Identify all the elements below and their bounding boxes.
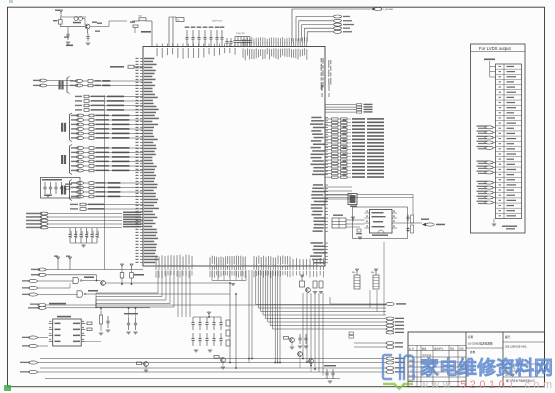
resistor row R102 with net label bbox=[75, 84, 82, 87]
capacitor C65 bbox=[128, 318, 130, 323]
net label to speaker bbox=[426, 223, 434, 226]
LVDS net label y187.6 bbox=[485, 186, 493, 189]
wire U1 bottom pin drop 1 bbox=[255, 270, 257, 305]
resistor array RA1 bbox=[354, 275, 360, 289]
net label bus 1 bbox=[386, 317, 394, 320]
ground LVDS bbox=[492, 223, 496, 225]
ground bbox=[81, 244, 85, 246]
wire IR net bbox=[47, 304, 386, 306]
wires U1 drops to caps grid bbox=[177, 270, 179, 317]
ground bbox=[66, 41, 70, 43]
capacitor C512 bbox=[192, 30, 194, 37]
ground bbox=[133, 331, 137, 333]
net label 5V bbox=[38, 268, 46, 271]
net label and wire TP/MTV 2 bbox=[298, 21, 300, 42]
crystal X2 with wires to U1 bbox=[110, 66, 124, 68]
connector CN7 pin table bbox=[332, 218, 346, 228]
wire U1 bottom-left drop 2 bbox=[161, 270, 163, 297]
LVDS series resistor pair row 7 bbox=[325, 139, 332, 141]
LVDS series resistor pair row 5 bbox=[325, 132, 332, 134]
main SoC IC U1 body bbox=[143, 47, 325, 267]
LVDS net label y127.3 bbox=[485, 126, 493, 129]
resistor R202 with wire bbox=[325, 106, 357, 108]
net label bottom-left y362.5 bbox=[29, 361, 38, 364]
LVDS series resistor pair row 13 bbox=[325, 159, 332, 161]
wire U1 bottom pin drop 7 bbox=[269, 270, 271, 326]
crystal X1 bbox=[176, 18, 184, 22]
input row with net label y152.5 bbox=[76, 151, 83, 154]
ground bbox=[194, 349, 198, 351]
resistor row R101 with net label bbox=[75, 80, 82, 83]
wires to gates bbox=[38, 280, 74, 282]
ground bbox=[313, 291, 317, 293]
wires drops to bottom bus bbox=[302, 293, 304, 359]
resistor R31 bbox=[357, 229, 361, 232]
wire U1 bottom-left drop 3 bbox=[165, 270, 167, 300]
svg-text:L_KEYPAD: L_KEYPAD bbox=[383, 8, 394, 11]
LVDS series resistor pair row 16 bbox=[325, 169, 332, 171]
diode D501 pair bbox=[74, 17, 78, 21]
ground bbox=[144, 369, 148, 371]
LVDS net label y182.6 bbox=[485, 181, 493, 184]
svg-text:L502: L502 bbox=[138, 16, 142, 18]
net label bus right y368 bbox=[386, 367, 394, 370]
power flags for resistor arrays bbox=[356, 271, 358, 273]
LVDS series resistor pair row 6 bbox=[325, 135, 332, 137]
wire U1 bottom pin drop 4 bbox=[262, 270, 264, 315]
transistor Q12 bbox=[309, 359, 314, 364]
input row with net label y133.5 bbox=[76, 132, 83, 135]
net label power control 1 bbox=[29, 279, 38, 282]
ground bbox=[304, 345, 308, 347]
net label and wire TP/MTV 3 bbox=[301, 25, 303, 42]
wire U1 bottom-left drop 5 bbox=[173, 270, 175, 307]
input row with net label y115.5 bbox=[76, 114, 83, 117]
wire 5V rail top-left bbox=[61, 16, 86, 18]
resistor R32 pair bbox=[411, 215, 414, 223]
transistor Q11 bbox=[298, 352, 303, 357]
ground bbox=[106, 329, 110, 331]
ground bus under U1 bbox=[212, 280, 246, 282]
LVDS net label y202.5 bbox=[485, 201, 493, 204]
wire and net label CON5VA bbox=[330, 303, 386, 305]
wires long drops from U1 bbox=[274, 270, 276, 363]
LVDS net label y132.3 bbox=[485, 131, 493, 134]
ground bbox=[208, 349, 212, 351]
power flags with pull-up resistors bbox=[121, 266, 123, 268]
LVDS net label y167.4 bbox=[485, 166, 493, 169]
wire crystal pins bbox=[168, 17, 170, 47]
resistor stack R81-R83 bbox=[226, 320, 230, 326]
capacitor C61 bbox=[107, 316, 109, 321]
transistor Q9 with base resistor bbox=[214, 356, 219, 359]
filter row y209 bbox=[80, 208, 86, 211]
group bracket video inputs bbox=[69, 115, 71, 141]
capacitor C32 bbox=[407, 227, 409, 229]
net VCC_LVDS bbox=[484, 59, 495, 61]
capacitor pair C91 C92 bbox=[299, 334, 301, 338]
resistor R501 bbox=[59, 20, 63, 25]
wire to keypad net bbox=[292, 8, 371, 10]
net label bus 5 bbox=[386, 331, 394, 334]
wire Q501 output to L502 bbox=[90, 26, 109, 28]
group bracket tuner bbox=[66, 78, 68, 92]
svg-text:编号: 编号 bbox=[505, 335, 511, 339]
input row with net label y120 bbox=[76, 119, 83, 122]
net label far-left B bbox=[39, 84, 46, 87]
wire vertical bus x230 bbox=[229, 283, 231, 363]
op-amp U30 audio amplifier bbox=[370, 210, 393, 234]
title block table bbox=[408, 332, 545, 387]
decoupling capacitors C520-C525 bbox=[235, 36, 250, 38]
gate U5B bbox=[77, 291, 83, 297]
net label bus 2 bbox=[386, 321, 394, 324]
net label bus right y358.5 bbox=[386, 357, 394, 360]
LVDS series resistor pair row 12 bbox=[325, 156, 332, 158]
transistor Q8 with base resistor bbox=[144, 362, 149, 367]
LVDS series resistor pair row 14 bbox=[325, 162, 332, 164]
capacitor AV filter x97 bbox=[96, 228, 98, 235]
inductor L502 bbox=[139, 18, 146, 21]
net label and wire TP/MTV 5 bbox=[306, 32, 308, 42]
wire 5V rail bbox=[46, 269, 143, 271]
capacitor C66 bbox=[135, 318, 137, 323]
wire bottom bus 1 bbox=[38, 362, 387, 364]
transistor Q501 bbox=[85, 24, 90, 29]
LVDS series resistor pair row 4 bbox=[325, 128, 332, 130]
power flag with resistor and transistor Q7 bbox=[301, 277, 303, 279]
svg-text:LE-32S62电源电路图: LE-32S62电源电路图 bbox=[468, 342, 493, 346]
net labels IR and KEY bbox=[38, 304, 46, 307]
U1 left edge pins and pin-name labels bbox=[140, 58, 143, 60]
svg-text:家电维修资料网: 家电维修资料网 bbox=[420, 357, 553, 379]
net label L_KEYPAD bbox=[374, 8, 382, 11]
net label and wire TP/MTV 1 bbox=[295, 17, 297, 42]
LVDS net label y137.6 bbox=[485, 136, 493, 139]
ground bbox=[231, 283, 235, 285]
capacitor C515 bbox=[210, 30, 212, 37]
wire junction dots bbox=[229, 282, 231, 284]
resistor R203 with wire bbox=[325, 109, 357, 111]
group bracket audio inputs bbox=[69, 146, 71, 173]
green corner mark bottom-left bbox=[4, 385, 11, 391]
LVDS net label y142.5 bbox=[485, 141, 493, 144]
EEPROM U6 bbox=[53, 319, 81, 346]
watermark site logo icon bbox=[383, 355, 414, 379]
speaker connector CN8 bbox=[348, 194, 357, 205]
power flag 5V pair bbox=[57, 259, 59, 261]
net label bus 3 bbox=[386, 324, 394, 327]
power flag 5V bbox=[60, 12, 62, 14]
capacitor C501 bbox=[67, 30, 69, 34]
capacitor C31 bbox=[407, 215, 409, 218]
LVDS net label y162.4 bbox=[485, 161, 493, 164]
input row with net label y192 bbox=[76, 191, 83, 194]
net label bottom-left y372 bbox=[29, 370, 38, 373]
LVDS series resistor pair row 3 bbox=[325, 125, 332, 127]
resistor pair R61 R62 bbox=[87, 322, 92, 325]
ground bus AV filter bbox=[70, 242, 97, 244]
power flag caps grid bbox=[208, 314, 210, 316]
input row with net label y187.5 bbox=[76, 186, 83, 189]
input row with net label y148 bbox=[76, 147, 83, 150]
U1 top edge pins and pin numbers bbox=[156, 44, 158, 47]
U1 right edge top pin labels (rotated text) bbox=[321, 58, 322, 62]
capacitor C502 bbox=[87, 34, 89, 37]
resistor R63 bbox=[100, 308, 102, 315]
capacitor C514 bbox=[204, 30, 206, 37]
svg-text:更改单号: 更改单号 bbox=[434, 347, 444, 351]
net label and wire TP/MTV 4 bbox=[303, 28, 305, 41]
resistor row to U1 pin y96.5 bbox=[84, 95, 89, 98]
svg-text:www.520101.com: www.520101.com bbox=[419, 379, 555, 391]
input row with net label y157 bbox=[76, 156, 83, 159]
transistor Q5 bbox=[101, 281, 106, 286]
AV input net label and wire y224 bbox=[40, 223, 48, 226]
LVDS series resistor pair row 17 bbox=[325, 173, 332, 175]
ground bbox=[298, 345, 302, 347]
U1 right edge pins and pin-name labels bbox=[325, 117, 328, 119]
wire U1 bottom-left drop 4 bbox=[169, 270, 171, 304]
capacitor AV filter x92 bbox=[91, 228, 93, 235]
wire U1 bottom pin drop 5 bbox=[264, 270, 266, 319]
ground bbox=[46, 194, 50, 196]
input row with net label y129 bbox=[76, 128, 83, 131]
svg-text:C520-C525: C520-C525 bbox=[236, 33, 245, 35]
ground bbox=[290, 346, 294, 348]
audio amp sub-circuit boundary bbox=[353, 207, 408, 239]
wire bottom bus 4 bbox=[40, 367, 386, 369]
power flag amp bbox=[352, 219, 354, 221]
AV input net label and wire y227.5 bbox=[40, 226, 48, 229]
capacitor AV filter x81 bbox=[80, 228, 82, 235]
svg-text:For LVDS output: For LVDS output bbox=[479, 46, 511, 51]
LVDS net label y172.4 bbox=[485, 171, 493, 174]
group bracket sync signals bbox=[69, 181, 71, 199]
ferrite bead FB1 bbox=[133, 25, 138, 27]
net label I2C y337.5 bbox=[29, 336, 38, 339]
AV input net label and wire y217 bbox=[40, 216, 48, 219]
LVDS series resistor pair row 11 bbox=[325, 152, 332, 154]
wire bottom bus 5 bbox=[45, 378, 340, 380]
capacitor grid row 2 bbox=[192, 333, 194, 339]
wire vertical bus x104 bbox=[104, 95, 106, 270]
LVDS series resistor pair row 15 bbox=[325, 166, 332, 168]
green corner mark top-left bbox=[9, 0, 13, 3]
input row with net label y170.5 bbox=[76, 169, 83, 172]
shielded filter box bbox=[41, 178, 81, 199]
net label bus right y372 bbox=[386, 371, 394, 374]
input row with net label y166 bbox=[76, 165, 83, 168]
svg-text:263-L26HJS5-A30L: 263-L26HJS5-A30L bbox=[505, 346, 528, 349]
capacitor pair C95 C96 bbox=[326, 369, 328, 373]
resistor row to U1 pin y105.5 bbox=[84, 104, 89, 107]
LVDS net label y192.5 bbox=[485, 191, 493, 194]
input row with net label y183 bbox=[76, 182, 83, 185]
LVDS series resistor pair row 10 bbox=[325, 149, 332, 151]
svg-text:RA2: RA2 bbox=[371, 271, 374, 274]
capacitor C511 bbox=[186, 30, 188, 37]
svg-text:RA1: RA1 bbox=[352, 271, 355, 274]
ground bbox=[328, 380, 332, 382]
net label bus right y362.5 bbox=[386, 361, 394, 364]
ground bbox=[99, 332, 103, 334]
LVDS series resistor pair row 1 bbox=[325, 118, 332, 120]
net label far-left A bbox=[39, 79, 46, 82]
wire bottom bus 3 bbox=[40, 358, 386, 360]
LVDS series resistor pair row 18 bbox=[325, 176, 332, 178]
transistor Q7 bbox=[306, 288, 311, 293]
svg-text:VDDP VDDC: VDDP VDDC bbox=[212, 21, 223, 23]
input row with net label y196.5 bbox=[76, 195, 83, 198]
capacitor C513 bbox=[198, 30, 200, 37]
AV input termination labels bbox=[123, 212, 141, 214]
net label power control 3 bbox=[29, 293, 38, 296]
net label bus 4 bbox=[386, 328, 394, 331]
wire U1 bottom pin drop 3 bbox=[260, 270, 262, 312]
watermark green swoosh bbox=[383, 383, 413, 391]
capacitor AV filter x75.5 bbox=[75, 228, 77, 235]
capacitor AV filter x86.5 bbox=[86, 228, 88, 235]
resistor row to U1 pin y101 bbox=[84, 100, 89, 103]
ground bbox=[86, 42, 90, 44]
ground bbox=[319, 291, 323, 293]
wires I2C drops bbox=[248, 270, 250, 363]
LVDS series resistor pair row 9 bbox=[325, 145, 332, 147]
AV input net label and wire y220.5 bbox=[40, 219, 48, 222]
wires U1 audio outputs to amp bbox=[325, 186, 352, 188]
wire amp output bbox=[397, 222, 422, 224]
resistor array RA2 bbox=[373, 275, 379, 289]
ground bbox=[358, 236, 362, 238]
resistor row to U1 pin y110 bbox=[84, 109, 89, 112]
wire U1 bottom pin drop 2 bbox=[257, 270, 259, 308]
LVDS series resistor pair row 8 bbox=[325, 142, 332, 144]
input row with net label y161.5 bbox=[76, 160, 83, 163]
filter row y204.5 bbox=[80, 203, 86, 206]
resistor pair on volume net bbox=[349, 332, 354, 335]
capacitor pair C71 C72 bbox=[313, 281, 317, 288]
capacitor C516 bbox=[216, 30, 218, 37]
wire U1 bottom-left drop 1 bbox=[157, 270, 159, 293]
input row with net label y124.5 bbox=[76, 123, 83, 126]
capacitor C517 bbox=[221, 30, 223, 37]
svg-text:名称: 名称 bbox=[468, 335, 474, 339]
gate U5A bbox=[73, 277, 79, 283]
net label STBY bbox=[38, 273, 46, 276]
transistor Q10 with base resistor bbox=[284, 337, 289, 340]
LVDS net label y147.8 bbox=[485, 146, 493, 149]
capacitor grid row 1 bbox=[193, 316, 221, 318]
ground bbox=[126, 331, 130, 333]
resistor R204 with wire bbox=[325, 111, 357, 113]
net labels volume nets bbox=[354, 342, 386, 344]
CN2 pin table pins 1-30 bbox=[496, 64, 522, 219]
LVDS series resistor pair row 2 bbox=[325, 121, 332, 123]
wire U1 bottom pin drop 6 bbox=[267, 270, 269, 322]
input row with net label y138 bbox=[76, 137, 83, 140]
net label power control 2 bbox=[29, 286, 38, 289]
AV input net label and wire y213.5 bbox=[40, 212, 48, 215]
wire U1 bottom pin drop 8 bbox=[272, 270, 274, 329]
wire vertical bus x236 bbox=[235, 294, 237, 368]
capacitor AV filter x70 bbox=[69, 228, 71, 235]
ground bbox=[221, 366, 225, 368]
LVDS output connector CN2 block bbox=[471, 44, 526, 233]
resistor R201 with wire bbox=[325, 104, 357, 106]
svg-text:充电: 充电 bbox=[470, 350, 476, 354]
net label I2C y346 bbox=[29, 344, 38, 347]
wire bottom bus 2 bbox=[38, 371, 387, 373]
wire gate output bbox=[82, 280, 101, 282]
LVDS net label y197.5 bbox=[485, 196, 493, 199]
U1 bottom edge pins and pin numbers bbox=[155, 266, 157, 270]
